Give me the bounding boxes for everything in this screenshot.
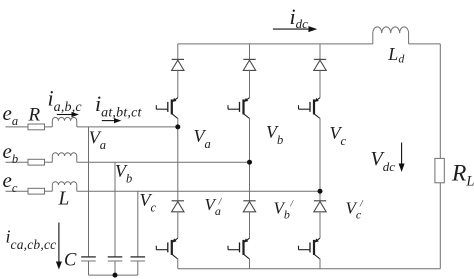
svg-text:R: R [28, 104, 41, 125]
svg-text:L: L [58, 188, 70, 209]
svg-text:C: C [64, 251, 77, 271]
